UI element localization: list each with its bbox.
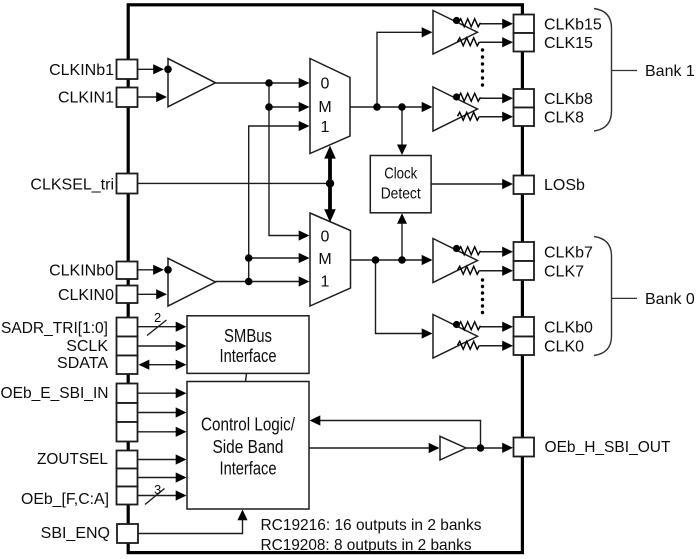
svg-text:3: 3: [154, 482, 161, 497]
wire SMBus Interface to Control Logic connector: [246, 373, 247, 381]
svg-text:CLKb7: CLKb7: [544, 245, 593, 262]
svg-text:Clock: Clock: [384, 166, 418, 183]
svg-text:1: 1: [321, 274, 330, 291]
input buffer A1 (CLKIN1/CLKINb1): [168, 59, 216, 107]
svg-text:Bank 1: Bank 1: [645, 63, 695, 80]
svg-text:CLKIN0: CLKIN0: [58, 287, 114, 304]
wire buffer A1 output to mux M1 input 0: [216, 82, 301, 84]
wire ZOUTSEL to Control Logic: [138, 459, 177, 461]
wire mux M1 output up to bank1 upper output buffer: [377, 32, 423, 107]
arrowhead B8 (bank1 lower, CLK8/CLKb8) lower into pin: [502, 112, 513, 122]
pin SCLK: [117, 337, 138, 356]
arrowhead into Clock Detect bottom: [397, 213, 407, 224]
pin CLK7: [514, 261, 535, 280]
node B8 (bank1 lower, CLK8/CLKb8) upper tap dot: [453, 93, 460, 100]
svg-text:Detect: Detect: [381, 185, 421, 202]
node mux M0 output junction 2: [398, 256, 406, 264]
bank 0 bracket: [594, 237, 612, 356]
pin CLKb15: [514, 15, 535, 34]
svg-text:M: M: [318, 99, 331, 116]
arrowhead SDATA into SMBus box: [176, 360, 187, 370]
pin SADR_TRI[1:0]: [117, 318, 138, 337]
wire CLKIN0 pin to input buffer A0: [138, 293, 158, 295]
svg-text:CLK15: CLK15: [544, 35, 593, 52]
svg-text:2: 2: [154, 310, 161, 325]
pin SDATA: [117, 356, 138, 375]
arrowhead B15 (bank1 upper, CLK15/CLKb15) lower into pin: [502, 37, 513, 47]
Clock Detect block: [370, 156, 431, 213]
arrowhead into mux M0 input 1: [299, 276, 310, 286]
node buffer A0 output junction 1: [245, 278, 253, 286]
bank 1 bracket tick: [612, 70, 638, 72]
svg-text:CLKSEL_tri: CLKSEL_tri: [30, 177, 114, 194]
mux M0 (bank0 clock select): [310, 213, 351, 306]
arrowhead B7 (bank0 upper, CLK7/CLKb7) lower into pin: [502, 266, 513, 276]
svg-text:CLK0: CLK0: [544, 339, 584, 356]
svg-text:OEb_E_SBI_IN: OEb_E_SBI_IN: [1, 385, 109, 402]
pin OEb_E_SBI_IN b: [117, 403, 138, 422]
wire SCLK to SMBus Interface: [138, 345, 177, 347]
svg-text:CLKb15: CLKb15: [544, 16, 602, 33]
wire B0 (bank0 lower, CLK0/CLKb0) lower resistor to pin: [480, 345, 503, 347]
arrowhead into Control Logic: [176, 472, 187, 482]
bus width slash 3: [145, 489, 165, 505]
wire B8 (bank1 lower, CLK8/CLKb8) upper resistor to pin: [481, 97, 504, 99]
input buffer A0 (CLKIN0/CLKINb0): [168, 258, 216, 306]
svg-text:CLKb0: CLKb0: [544, 320, 593, 337]
bus width slash 2: [147, 320, 167, 336]
arrowhead into mux M1 input M: [299, 102, 310, 112]
arrowhead CLKIN1 into buffer A1: [156, 92, 167, 102]
arrowhead feedback into Control Logic: [310, 415, 321, 425]
pin CLKb7: [514, 242, 535, 261]
arrowhead into mux M0 input M: [299, 253, 310, 263]
pin CLKINb1: [117, 60, 138, 80]
pin CLKIN1: [117, 88, 138, 108]
wire mux M0 output down to bank0 lower output buffer: [376, 260, 424, 334]
resistor B0 (bank0 lower, CLK0/CLKb0) upper: [459, 322, 481, 330]
resistor B0 (bank0 lower, CLK0/CLKb0) lower: [458, 341, 480, 349]
svg-text:SCLK: SCLK: [66, 338, 108, 355]
svg-text:0: 0: [321, 76, 330, 93]
svg-text:RC19208: 8 outputs in 2 banks: RC19208: 8 outputs in 2 banks: [261, 537, 472, 554]
wire node to mux M0 input M: [249, 257, 300, 259]
bank 1 bracket: [594, 9, 612, 132]
wire SBI buffer to OEb_H_SBI_OUT pin: [466, 447, 503, 449]
node B15 (bank1 upper, CLK15/CLKb15) upper tap dot: [453, 17, 460, 24]
Control Logic / Side Band Interface block: [187, 382, 309, 510]
wire buffer A0 output to mux M0 input 1: [216, 281, 301, 283]
svg-text:0: 0: [321, 229, 330, 246]
wire OEb_H_SBI_OUT feedback to Control Logic: [320, 421, 481, 449]
arrowhead into LOSb pin: [502, 179, 513, 189]
svg-text:OEb_[F,C:A]: OEb_[F,C:A]: [21, 491, 109, 508]
arrowhead mux select down into mux M0: [324, 209, 336, 222]
svg-text:Interface: Interface: [220, 458, 277, 478]
svg-text:ZOUTSEL: ZOUTSEL: [37, 451, 108, 468]
svg-text:SDATA: SDATA: [57, 355, 108, 372]
svg-text:M: M: [318, 251, 331, 268]
output buffer U5 (SBI out): [440, 436, 466, 460]
wire B0 (bank0 lower, CLK0/CLKb0) upper resistor to pin: [481, 326, 504, 328]
svg-text:LOSb: LOSb: [544, 177, 585, 194]
pin CLKIN0: [117, 286, 138, 304]
pin CLK15: [514, 33, 535, 52]
arrowhead into Clock Detect top: [397, 145, 407, 156]
resistor B15 (bank1 upper, CLK15/CLKb15) upper: [459, 19, 481, 27]
arrowhead pin3 into Control Logic: [176, 427, 187, 437]
resistor B15 (bank1 upper, CLK15/CLKb15) lower: [458, 38, 480, 46]
node buffer A1 output junction 2: [265, 103, 273, 111]
wire node to mux M1 input M: [269, 106, 300, 108]
ellipsis dots bank1 outputs: [481, 48, 484, 86]
pin CLKSEL_tri: [117, 174, 138, 194]
mux M1 (bank1 clock select): [310, 59, 350, 154]
wire CLKINb1 pin to input buffer A1: [138, 68, 155, 70]
pin CLKb0: [514, 317, 535, 337]
pin OEb_E_SBI_IN a: [117, 384, 138, 404]
wire mux select double-arrow line: [328, 155, 332, 213]
svg-text:SMBus: SMBus: [224, 326, 272, 346]
wire B7 (bank0 upper, CLK7/CLKb7) upper resistor to pin: [481, 251, 504, 253]
wire mux M0 output to bank0 upper output buffer: [351, 259, 424, 261]
arrowhead into bank1 upper output buffer: [422, 27, 433, 37]
arrowhead CLKIN0 into buffer A0: [156, 289, 167, 299]
svg-text:CLKINb0: CLKINb0: [49, 263, 114, 280]
svg-text:Control Logic/: Control Logic/: [201, 415, 295, 435]
arrowhead CLKINb0 into buffer A0: [153, 265, 164, 275]
output buffer B7 (bank0 upper, CLK7/CLKb7): [433, 239, 478, 283]
wire Clock Detect to LOSb pin: [432, 183, 504, 185]
node buffer A0 output junction 2: [245, 254, 253, 262]
arrowhead B15 (bank1 upper, CLK15/CLKb15) upper into pin: [502, 19, 513, 29]
resistor B7 (bank0 upper, CLK7/CLKb7) lower: [458, 266, 480, 274]
node B7 (bank0 upper, CLK7/CLKb7) upper tap dot: [453, 245, 460, 252]
arrowhead into mux M1 input 0: [299, 78, 310, 88]
wire SDATA bidirectional to SMBus Interface: [148, 364, 177, 366]
wire mux M1 output to bank1 lower output buffer: [350, 106, 423, 108]
node B0 (bank0 lower, CLK0/CLKb0) upper tap dot: [453, 321, 460, 328]
wire OEb_[F,C:A] to Control Logic: [138, 495, 177, 497]
svg-text:Side Band: Side Band: [213, 437, 284, 457]
resistor B7 (bank0 upper, CLK7/CLKb7) upper: [459, 247, 481, 255]
pin OEb_H_SBI_OUT: [514, 438, 535, 457]
arrowhead into SBI output buffer: [429, 443, 440, 453]
wire B15 (bank1 upper, CLK15/CLKb15) lower resistor to pin: [480, 41, 503, 43]
arrowhead mux select up into mux M1: [324, 146, 336, 159]
IC body outline (chip boundary): [128, 5, 522, 553]
node mux M1 output junction 2: [398, 103, 406, 111]
svg-text:CLK8: CLK8: [544, 110, 584, 127]
wire OEb_E_SBI_IN pin 2 to Control Logic: [138, 412, 177, 414]
resistor B8 (bank1 lower, CLK8/CLKb8) lower: [458, 112, 480, 120]
arrowhead ZOUTSEL into Control Logic: [176, 454, 187, 464]
wire B15 (bank1 upper, CLK15/CLKb15) upper resistor to pin: [481, 23, 504, 25]
node SBI output junction: [477, 444, 485, 452]
node buffer A1 input dot: [164, 66, 172, 74]
node CLKSEL_tri select junction: [326, 179, 334, 187]
wire mux M0 output up to Clock Detect bottom: [401, 224, 403, 261]
svg-text:OEb_H_SBI_OUT: OEb_H_SBI_OUT: [545, 439, 671, 456]
bank 0 bracket tick: [612, 297, 638, 299]
wire OEb_E_SBI_IN pin 3 to Control Logic: [138, 431, 177, 433]
arrowhead SADR_TRI into SMBus box: [176, 322, 187, 332]
output buffer B15 (bank1 upper, CLK15/CLKb15): [433, 11, 478, 55]
pin CLKb8: [514, 89, 535, 108]
ellipsis dots bank0 outputs: [481, 278, 484, 314]
wire mux M1 output down to Clock Detect top: [401, 107, 403, 145]
arrowhead into bank1 lower output buffer: [422, 102, 433, 112]
wire buffer A0 output up to mux M1 input 1: [249, 126, 300, 282]
wire CLKINb0 pin to input buffer A0: [138, 269, 155, 271]
pin SBI_ENQ: [117, 524, 138, 543]
output buffer B8 (bank1 lower, CLK8/CLKb8): [433, 87, 478, 131]
arrowhead B8 (bank1 lower, CLK8/CLKb8) upper into pin: [502, 93, 513, 103]
svg-text:CLKINb1: CLKINb1: [49, 62, 114, 79]
arrowhead pin2 into Control Logic: [176, 407, 187, 417]
wire Control Logic output to SBI buffer: [309, 447, 430, 449]
arrowhead SCLK into SMBus box: [176, 341, 187, 351]
wire node buffer A1 output down to mux M0 input 0: [269, 83, 300, 236]
SMBus Interface block: [187, 316, 309, 374]
pin CLK0: [514, 337, 535, 356]
arrowhead B7 (bank0 upper, CLK7/CLKb7) upper into pin: [502, 247, 513, 257]
svg-text:SADR_TRI[1:0]: SADR_TRI[1:0]: [1, 320, 108, 337]
node mux M1 output junction 1: [373, 103, 381, 111]
arrowhead pin1 into Control Logic: [176, 388, 187, 398]
arrowhead B0 (bank0 lower, CLK0/CLKb0) lower into pin: [502, 341, 513, 351]
wire pin to Control Logic: [138, 477, 177, 479]
wire SADR_TRI to SMBus Interface: [138, 326, 177, 328]
node mux M0 output junction 1: [372, 256, 380, 264]
arrowhead OEb_[F,C:A] into Control Logic: [176, 490, 187, 500]
svg-text:1: 1: [321, 119, 330, 136]
arrowhead into bank0 upper output buffer: [422, 255, 433, 265]
arrowhead into OEb_H_SBI_OUT pin: [502, 443, 513, 453]
resistor B8 (bank1 lower, CLK8/CLKb8) upper: [459, 93, 481, 101]
svg-text:CLKIN1: CLKIN1: [58, 90, 114, 107]
svg-text:Bank 0: Bank 0: [645, 291, 695, 308]
arrowhead B0 (bank0 lower, CLK0/CLKb0) upper into pin: [502, 322, 513, 332]
pin OEb_E_SBI_IN c: [117, 422, 138, 442]
wire SBI_ENQ to Control Logic bottom: [139, 520, 243, 534]
pin ZOUTSEL: [117, 451, 138, 469]
arrowhead into mux M1 input 1: [299, 121, 310, 131]
wire B8 (bank1 lower, CLK8/CLKb8) lower resistor to pin: [480, 116, 503, 118]
svg-text:Interface: Interface: [220, 346, 277, 366]
svg-text:CLK7: CLK7: [544, 264, 584, 281]
pin CLK8: [514, 108, 535, 127]
node buffer A0 input dot: [164, 266, 172, 274]
wire OEb_E_SBI_IN pin 1 to Control Logic: [138, 392, 177, 394]
pin OEb_[F,C:A]: [117, 487, 138, 505]
pin LOSb: [514, 176, 535, 195]
node buffer A1 output junction 1: [265, 79, 273, 87]
arrowhead into mux M0 input 0: [299, 230, 310, 240]
arrowhead CLKINb1 into buffer A1: [153, 64, 164, 74]
wire CLKIN1 pin to input buffer A1: [138, 96, 158, 98]
pin unnamed mid: [117, 469, 138, 487]
svg-text:RC19216: 16 outputs in 2 banks: RC19216: 16 outputs in 2 banks: [261, 517, 482, 534]
output buffer B0 (bank0 lower, CLK0/CLKb0): [433, 315, 478, 359]
wire CLKSEL_tri pin to mux select node: [138, 182, 331, 184]
arrowhead into bank0 lower output buffer: [422, 328, 433, 338]
arrowhead SBI_ENQ into Control Logic bottom: [237, 510, 247, 521]
wire B7 (bank0 upper, CLK7/CLKb7) lower resistor to pin: [480, 270, 503, 272]
svg-text:SBI_ENQ: SBI_ENQ: [41, 525, 110, 542]
svg-text:CLKb8: CLKb8: [544, 91, 593, 108]
pin CLKINb0: [117, 262, 138, 280]
arrowhead SDATA back to pin: [139, 360, 150, 370]
